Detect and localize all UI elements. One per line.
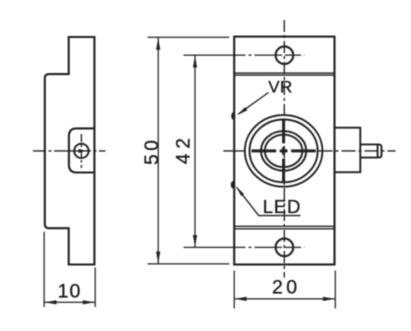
dim 42 arrowhead top: [193, 56, 197, 68]
side view hole center mark arrow: [79, 149, 86, 153]
LED bump on left edge: [231, 182, 234, 188]
sensing face outer ring: [245, 115, 323, 187]
front view top band double line: [234, 73, 334, 75]
LED leader line: [237, 188, 301, 216]
top mounting hole: [276, 46, 294, 64]
sensing face horizontal centerline right through connector: [319, 150, 396, 152]
side view vertical centerline: [80, 134, 82, 168]
front view body rectangle: [234, 37, 334, 265]
VR leader line: [239, 93, 269, 114]
VR bump on left edge: [232, 113, 235, 119]
front view vertical centerline: [283, 20, 285, 278]
dim 42 arrowhead bottom: [193, 235, 197, 247]
dim 20 dimension line: [234, 298, 335, 300]
dim 20 arrowhead right: [323, 297, 335, 301]
svg-text:42: 42: [173, 133, 194, 164]
dim 42 dimension line: [194, 55, 196, 247]
front view bottom band double line: [234, 226, 334, 229]
dim 10 arrowhead left: [45, 300, 57, 304]
connector stud: [360, 144, 381, 157]
dim 50 arrowhead bottom: [156, 252, 160, 264]
dim 10 extension line left: [43, 232, 45, 307]
svg-text:10: 10: [58, 281, 82, 303]
sensing face bold vertical cross bar: [282, 119, 285, 183]
sensing face inner ring: [261, 131, 306, 171]
svg-text:50: 50: [142, 137, 163, 165]
top hole horizontal centerline / dim 42 extension: [184, 54, 305, 56]
VR leader arrowhead: [237, 107, 247, 115]
connector stud end line: [377, 144, 379, 157]
side view mounting boss: [69, 128, 95, 172]
dim 10 arrowhead right: [83, 300, 95, 304]
bottom hole horizontal centerline / dim 42 extension: [184, 246, 305, 248]
svg-text:VR: VR: [268, 77, 293, 96]
svg-text:LED: LED: [263, 196, 301, 217]
dim 50 arrowhead top: [156, 38, 160, 50]
side view horizontal centerline: [33, 150, 106, 152]
dim 50 extension line bottom: [148, 263, 230, 265]
dim 50 dimension line: [157, 37, 159, 264]
LED leader arrowhead: [236, 186, 244, 196]
side view hole circle: [74, 144, 88, 158]
dim 10 dimension line: [44, 301, 95, 303]
dim 20 extension line right: [334, 271, 336, 309]
svg-text:20: 20: [272, 277, 301, 299]
dim 20 arrowhead left: [235, 297, 247, 301]
sensing face horizontal centerline left: [223, 150, 244, 152]
connector base block: [335, 128, 361, 173]
bottom mounting hole: [276, 239, 294, 257]
sensing face bold horizontal cross bar: [252, 149, 316, 152]
dim 20 extension line left: [233, 271, 235, 309]
dim 50 extension line top: [148, 36, 230, 38]
side view body outline: [45, 37, 95, 265]
dim 10 extension line right: [94, 268, 96, 308]
